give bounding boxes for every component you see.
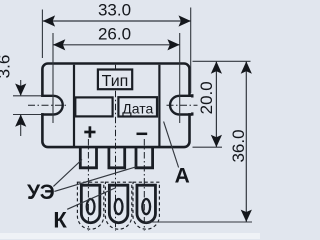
body outline	[42, 64, 189, 148]
pad 2 dashed outline	[105, 182, 131, 229]
minus mark	[137, 133, 148, 136]
dimension 26.0 line	[53, 44, 180, 46]
svg-text:Дата: Дата	[122, 101, 153, 117]
dimension 26.0 extension lines	[52, 33, 54, 123]
pin 3 centerline	[143, 139, 145, 231]
pin 1	[80, 148, 96, 168]
pad 2 stadium	[109, 185, 128, 223]
svg-text:20.0: 20.0	[197, 81, 216, 114]
pin 1 centerline	[87, 139, 89, 231]
svg-text:К: К	[53, 207, 67, 232]
svg-text:УЭ: УЭ	[27, 181, 55, 204]
dimension 20.0 arrows	[211, 61, 222, 73]
left slot extension lines for 3.6 dim	[13, 96, 42, 115]
pin 2	[109, 148, 125, 168]
svg-text:26.0: 26.0	[98, 25, 131, 44]
pad 2 inner oval	[115, 199, 123, 214]
dimension 36.0 arrows	[241, 61, 252, 73]
УЭ leader to pin 1	[53, 160, 82, 187]
right slot and ear	[170, 94, 192, 115]
Дата box	[118, 97, 157, 116]
bottom extension line (pads bottom)	[145, 221, 252, 223]
dimension 20.0 line	[215, 61, 217, 147]
svg-text:36.0: 36.0	[229, 129, 248, 162]
Тип box	[98, 70, 132, 90]
blank box	[75, 97, 112, 116]
slot centerline right	[167, 104, 198, 106]
plus mark	[84, 126, 95, 137]
slot centerline left	[28, 104, 67, 106]
right mid extension line (body bottom)	[193, 146, 223, 148]
pad 1 stadium	[81, 185, 100, 223]
А leader to right flange	[164, 122, 179, 168]
right top extension line	[193, 60, 251, 62]
dimension 3.6 line and arrows	[20, 80, 22, 95]
pad 3 stadium	[137, 185, 156, 223]
dimension 33.0 line	[43, 20, 191, 22]
pad 3 dashed outline	[133, 182, 159, 229]
left slot	[41, 96, 63, 115]
interior vertical line right flange	[158, 65, 160, 146]
dimension 33.0 arrows	[43, 15, 55, 26]
svg-text:3.6: 3.6	[0, 55, 14, 79]
pin 3	[136, 148, 153, 168]
pad 3 inner oval	[142, 199, 150, 214]
УЭ leader to pin 3	[54, 167, 136, 192]
К leader to pad 2	[67, 188, 116, 210]
pad 1 inner oval	[87, 199, 95, 214]
svg-text:А: А	[175, 165, 190, 188]
interior vertical line left flange	[73, 65, 75, 146]
pin 2 centerline	[115, 65, 117, 231]
svg-text:Тип: Тип	[102, 73, 129, 90]
dimension 33.0 extension lines	[41, 10, 43, 59]
body edge gaps at slot mouths	[41, 97, 45, 113]
pad 1 dashed outline	[77, 182, 103, 229]
svg-text:33.0: 33.0	[98, 1, 131, 20]
dimension 36.0 line	[245, 61, 247, 222]
dimension 26.0 arrows	[53, 39, 65, 50]
